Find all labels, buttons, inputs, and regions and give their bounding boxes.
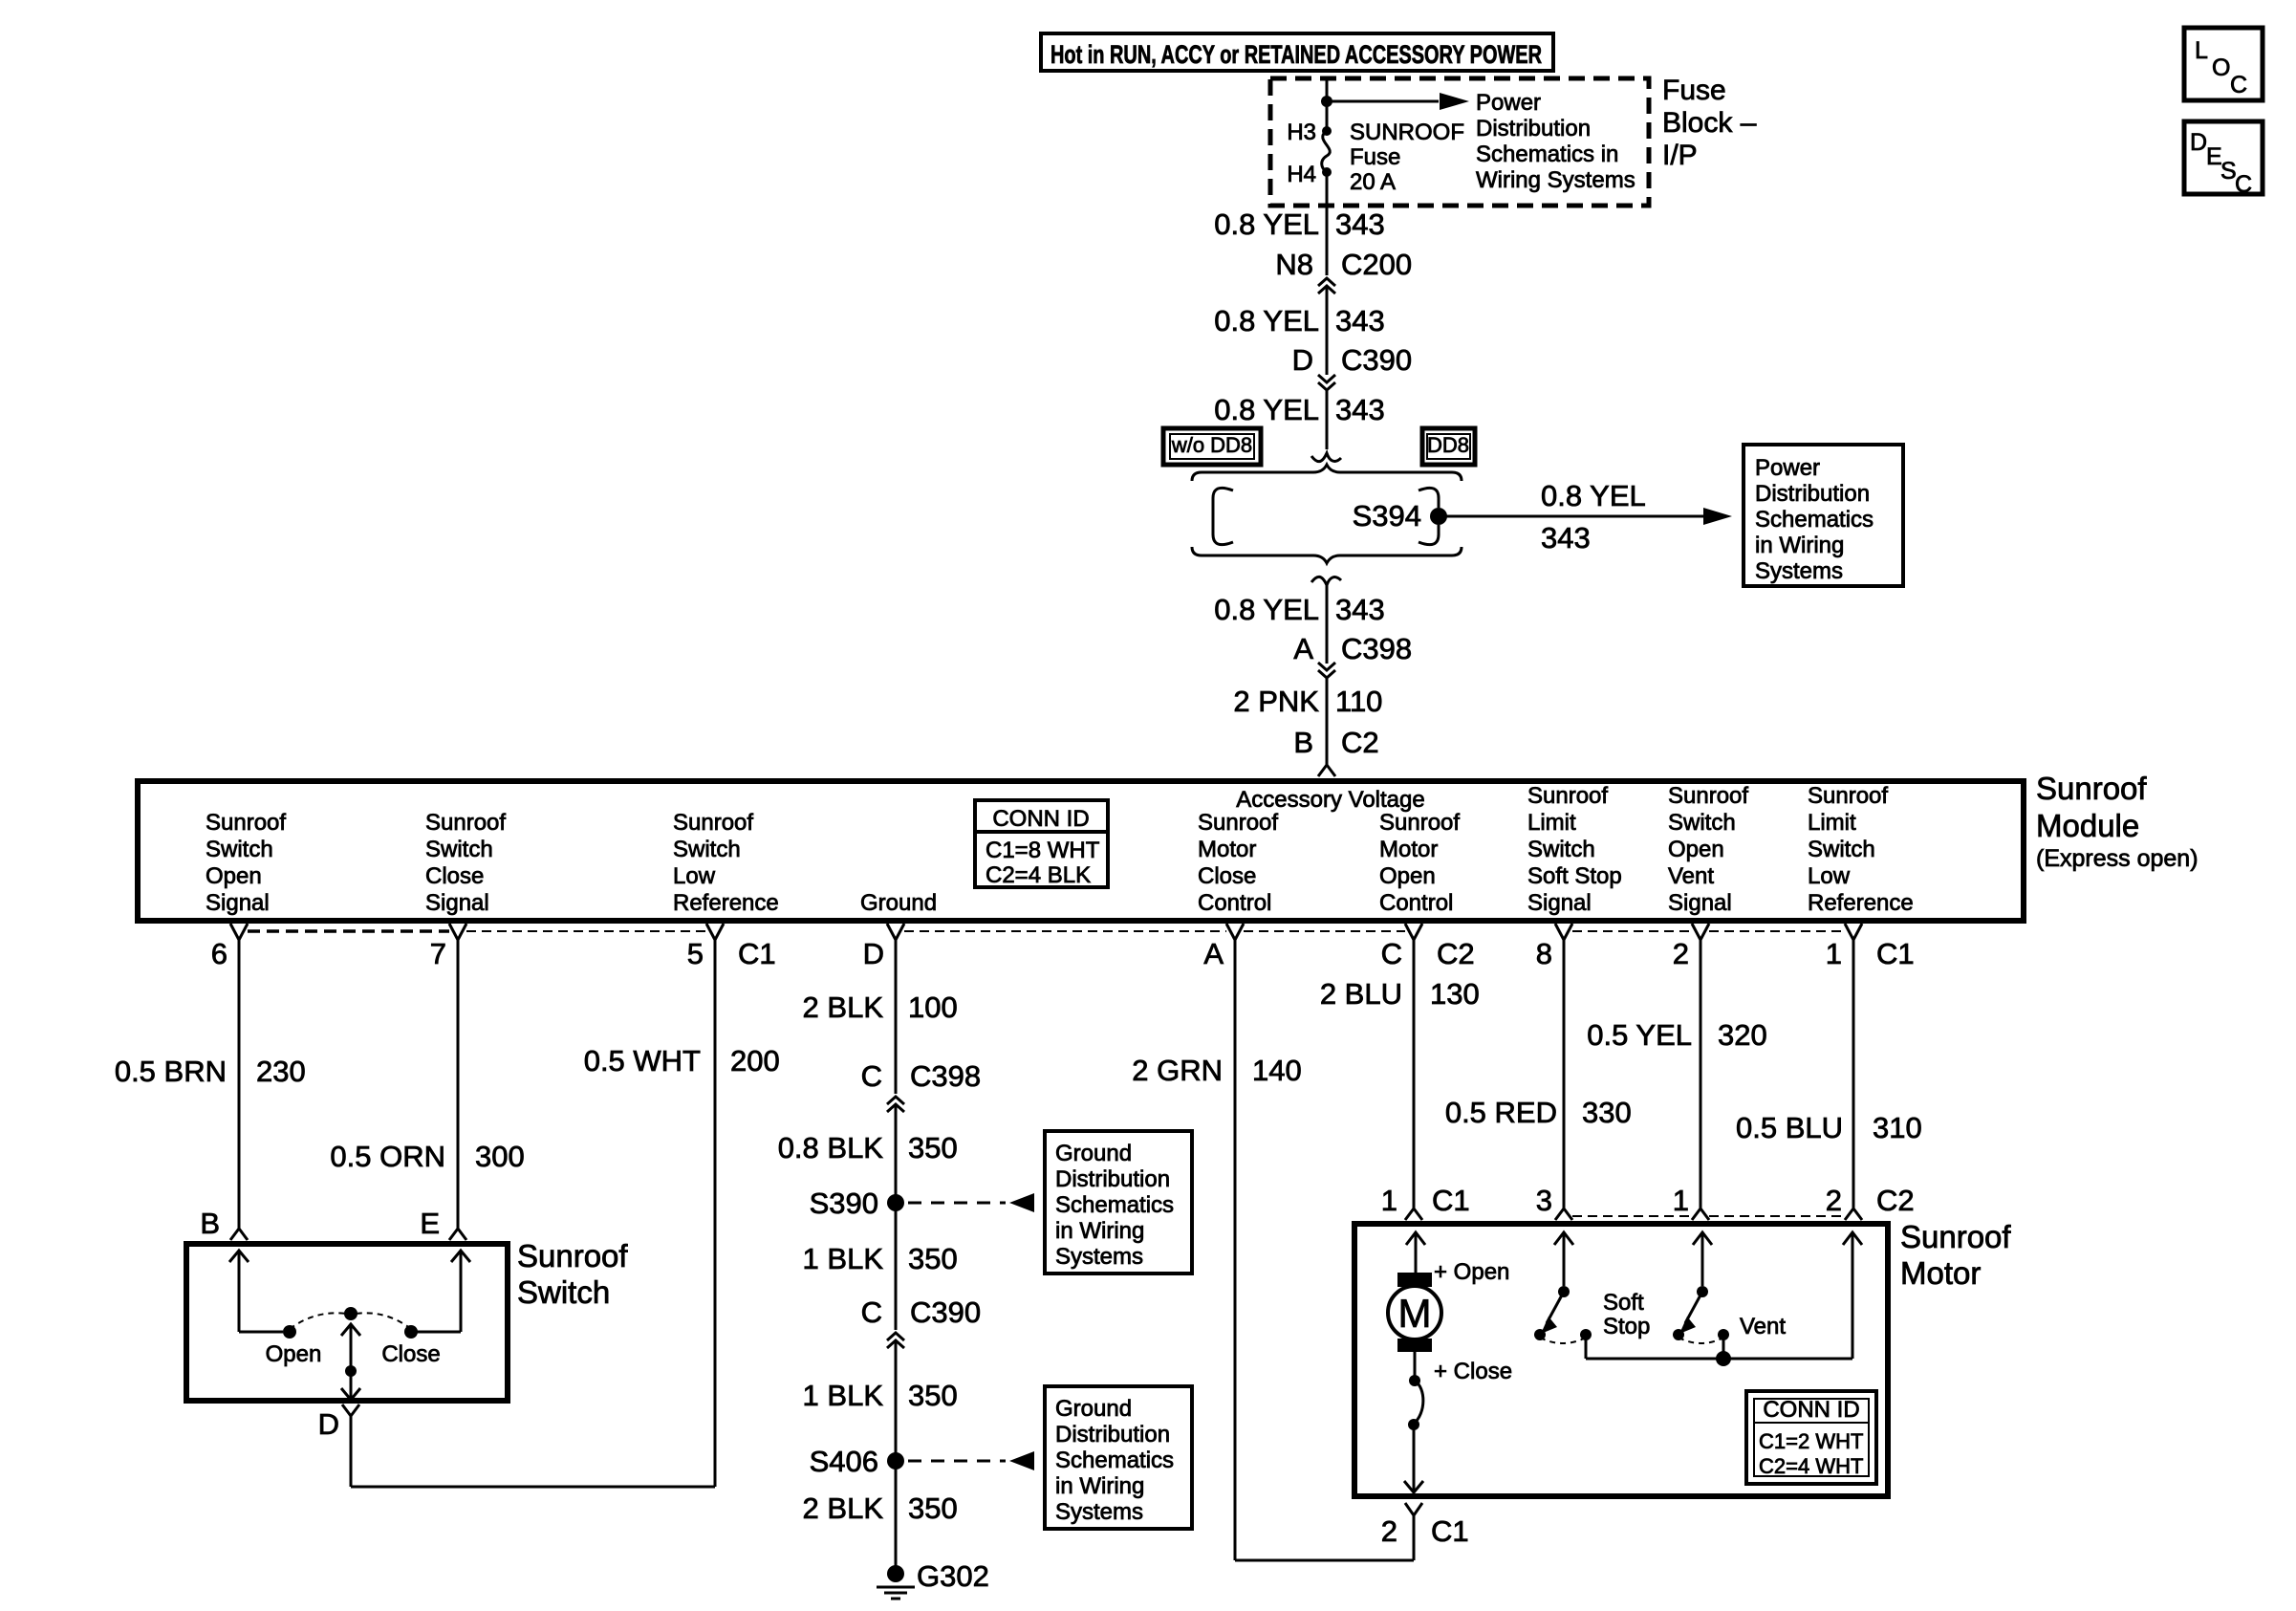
label: E (420, 1207, 440, 1240)
wire: C398 to C390 ground (895, 1104, 898, 1330)
svg-text:C1=2 WHT: C1=2 WHT (1759, 1429, 1863, 1453)
svg-text:330: 330 (1582, 1096, 1632, 1129)
wire: motor pin 2 C2 internal (1843, 1232, 1862, 1359)
svg-text:Distribution: Distribution (1476, 116, 1591, 142)
svg-text:S390: S390 (810, 1186, 878, 1220)
label: + Open (1434, 1259, 1509, 1285)
svg-text:Signal: Signal (425, 890, 489, 916)
switch common node (344, 1307, 357, 1320)
svg-text:in Wiring: in Wiring (1755, 533, 1844, 558)
wire: pin 8 to motor 3 (1563, 940, 1566, 1208)
switch rocker dashed arc left (290, 1313, 346, 1329)
svg-text:C1: C1 (1432, 1184, 1470, 1217)
motor M brush top (1397, 1273, 1432, 1287)
svg-text:1 BLK: 1 BLK (803, 1242, 884, 1275)
module pin 5 fork (706, 924, 724, 940)
svg-text:Limit: Limit (1808, 810, 1856, 836)
label: B (200, 1207, 220, 1240)
label: Open (266, 1341, 322, 1367)
connector dash 3-1 (motor) (1572, 1215, 1692, 1217)
svg-text:Reference: Reference (1808, 890, 1914, 916)
label: G302 (917, 1559, 989, 1593)
module label: Sunroof Switch Low Reference (673, 810, 779, 916)
label: Fuse Block - I/P (1662, 75, 1757, 171)
module CONN ID table (975, 800, 1108, 888)
label: C C398 (ground) (861, 1059, 982, 1093)
svg-text:343: 343 (1335, 304, 1385, 337)
svg-text:0.8 YEL: 0.8 YEL (1214, 304, 1319, 337)
svg-text:Control: Control (1198, 890, 1271, 916)
label: Sunroof Motor (1900, 1219, 2011, 1291)
svg-text:C: C (861, 1295, 882, 1329)
svg-text:C398: C398 (1341, 632, 1412, 665)
svg-text:8: 8 (1536, 937, 1552, 970)
svg-text:S394: S394 (1353, 499, 1421, 533)
label: 2 BLU 130 (1320, 977, 1480, 1011)
ground G302 symbol (877, 1565, 915, 1599)
motor arrow in 3 (1554, 1232, 1573, 1286)
svg-text:0.5 BLU: 0.5 BLU (1736, 1111, 1843, 1144)
svg-text:Sunroof: Sunroof (1808, 783, 1888, 809)
option box DD8 (1422, 428, 1475, 465)
svg-text:Motor: Motor (1379, 837, 1438, 862)
svg-text:CONN ID: CONN ID (992, 806, 1089, 832)
connector dash 6-7 (248, 929, 449, 933)
connector dash 2-1 (1709, 930, 1845, 932)
pin E fork into switch (449, 1229, 466, 1240)
svg-text:in Wiring: in Wiring (1055, 1473, 1144, 1499)
svg-text:Fuse: Fuse (1662, 75, 1726, 106)
wire: pin 7 to switch E (457, 940, 460, 1229)
fuse SUNROOF 20A element (1322, 126, 1332, 177)
svg-text:C1=8 WHT: C1=8 WHT (986, 838, 1100, 863)
svg-text:Signal: Signal (1668, 890, 1732, 916)
svg-text:Sunroof: Sunroof (673, 810, 753, 836)
svg-text:343: 343 (1335, 393, 1385, 426)
motor close contact chain (1404, 1352, 1423, 1492)
svg-text:Sunroof: Sunroof (1668, 783, 1748, 809)
svg-text:C2: C2 (1437, 937, 1475, 970)
switch rocker dashed arc right (356, 1313, 411, 1329)
svg-text:6: 6 (211, 937, 227, 970)
connector dash 1-2 (motor) (1709, 1215, 1845, 1217)
svg-text:Sunroof: Sunroof (1527, 783, 1608, 809)
switch common mid node (345, 1365, 357, 1377)
svg-text:2 GRN: 2 GRN (1132, 1054, 1223, 1087)
svg-text:2: 2 (1673, 937, 1689, 970)
svg-text:0.8 YEL: 0.8 YEL (1541, 479, 1646, 512)
svg-text:Hot in RUN, ACCY or RETAINED A: Hot in RUN, ACCY or RETAINED ACCESSORY P… (1051, 40, 1542, 69)
svg-text:343: 343 (1335, 207, 1385, 241)
dashed ref from S390 (908, 1202, 1006, 1205)
node: vent bus junction (1716, 1351, 1731, 1366)
DESC legend box (2184, 121, 2263, 198)
box: Ground Distribution Schematics in Wiring Systems (2) (1045, 1386, 1192, 1529)
svg-text:Systems: Systems (1055, 1499, 1143, 1525)
svg-text:343: 343 (1541, 521, 1591, 555)
switch common down arrow (341, 1388, 360, 1400)
module label: Sunroof Switch Open Vent Signal (1668, 783, 1748, 916)
svg-text:C2=4 BLK: C2=4 BLK (986, 862, 1091, 888)
module pin A fork (1226, 924, 1244, 940)
wire: pin C to motor 1 C1 (1413, 940, 1416, 1208)
splice S394 (1430, 508, 1447, 525)
label: N8 C200 (1275, 248, 1412, 281)
svg-text:A: A (1293, 632, 1313, 665)
module pin C fork (1405, 924, 1422, 940)
svg-text:Reference: Reference (673, 890, 779, 916)
pin B fork into switch (230, 1229, 248, 1240)
svg-text:C: C (2230, 72, 2247, 98)
svg-text:310: 310 (1873, 1111, 1922, 1144)
module label: Sunroof Motor Close Control (1198, 810, 1278, 916)
splice S406 (887, 1452, 904, 1469)
svg-text:Low: Low (673, 863, 716, 889)
svg-text:Schematics: Schematics (1055, 1448, 1174, 1473)
module pin 6 fork (230, 924, 248, 940)
motor pin fork x=1636 (1555, 1208, 1572, 1220)
fuse block I/P dashed outline (1270, 78, 1649, 206)
svg-text:Sunroof: Sunroof (1379, 810, 1460, 836)
svg-text:2: 2 (1381, 1514, 1397, 1548)
module pin D fork (887, 924, 904, 940)
wire: switch D to low reference (351, 1416, 715, 1487)
svg-text:343: 343 (1335, 593, 1385, 626)
svg-text:Ground: Ground (860, 890, 937, 916)
svg-text:C1: C1 (1876, 937, 1915, 970)
wire: branch to power distribution (1327, 100, 1439, 103)
power feed label box: Hot in RUN ACCY or RETAINED ACCESSORY POWER (1041, 33, 1553, 71)
svg-text:Module: Module (2036, 808, 2139, 843)
svg-text:Open: Open (1668, 837, 1724, 862)
svg-text:C200: C200 (1341, 248, 1412, 281)
svg-text:B: B (200, 1207, 220, 1240)
arrow to Power Distribution (1440, 93, 1469, 110)
label: + Close (1434, 1359, 1512, 1384)
svg-text:B: B (1293, 726, 1313, 759)
svg-text:Control: Control (1379, 890, 1453, 916)
label: 0.5 BLU 310 (1736, 1111, 1922, 1144)
connector dash 8-2 (1572, 930, 1692, 932)
brace top (option group) (1192, 465, 1462, 481)
svg-text:Switch: Switch (1808, 837, 1875, 862)
svg-text:1: 1 (1673, 1184, 1689, 1217)
svg-text:C: C (1381, 937, 1402, 970)
wire: pin 6 to switch B (238, 940, 241, 1229)
label: Soft Stop (1603, 1290, 1650, 1339)
wire: S394 branch right (1439, 515, 1707, 518)
svg-text:Distribution: Distribution (1055, 1422, 1170, 1448)
svg-text:5: 5 (687, 937, 704, 970)
brace bottom (option group) (1192, 547, 1462, 563)
sunroof switch outline (186, 1244, 508, 1401)
label: S390 (810, 1186, 878, 1220)
svg-text:Vent: Vent (1668, 863, 1714, 889)
sunroof motor outline (1354, 1224, 1888, 1496)
svg-text:Sunroof: Sunroof (517, 1238, 628, 1274)
svg-text:Schematics: Schematics (1055, 1192, 1174, 1218)
motor M circle (1388, 1286, 1441, 1339)
wire: C398 to module pin B (1326, 678, 1329, 765)
pin D fork out of switch (342, 1404, 359, 1416)
svg-text:Open: Open (266, 1341, 322, 1367)
svg-text:0.5 WHT: 0.5 WHT (584, 1044, 701, 1078)
svg-text:N8: N8 (1275, 248, 1313, 281)
motor arrow in 1 C1 (1406, 1232, 1425, 1273)
wire: C390 to ground G302 (895, 1340, 898, 1566)
svg-text:Soft Stop: Soft Stop (1527, 863, 1622, 889)
svg-text:100: 100 (908, 991, 958, 1024)
module pin 8 fork (1555, 924, 1572, 940)
svg-text:D: D (863, 937, 884, 970)
svg-text:in Wiring: in Wiring (1055, 1218, 1144, 1244)
module label: Sunroof Limit Switch Low Reference (1808, 783, 1914, 916)
svg-text:Sunroof: Sunroof (1900, 1219, 2011, 1254)
svg-text:H3: H3 (1287, 120, 1316, 145)
splice S390 (887, 1194, 904, 1211)
splice option bracket left (1213, 488, 1233, 544)
LOC legend box (2184, 28, 2263, 100)
svg-text:Switch: Switch (206, 837, 273, 862)
svg-text:C390: C390 (910, 1295, 981, 1329)
label: S406 (810, 1445, 878, 1478)
motor arrow in 1 C2 (1693, 1232, 1712, 1286)
svg-text:Power: Power (1755, 455, 1820, 481)
label: Close (381, 1341, 440, 1367)
label: 0.8 YEL over branch (1541, 479, 1646, 512)
arrow to Power Distribution (right) (1703, 508, 1732, 525)
svg-text:DD8: DD8 (1427, 433, 1469, 457)
svg-text:0.5 BRN: 0.5 BRN (115, 1055, 227, 1088)
wire: pin 1 to motor 2 C2 (1852, 940, 1855, 1208)
svg-text:Sunroof: Sunroof (206, 810, 286, 836)
motor pin labels (1381, 1184, 1915, 1217)
label: 0.8 YEL 343 (4) (1214, 593, 1384, 626)
svg-text:Sunroof: Sunroof (2036, 771, 2147, 806)
wire: feed into fuse block (1326, 78, 1329, 131)
wire: option split to C398 (1326, 583, 1329, 664)
svg-text:Power: Power (1476, 90, 1541, 116)
module pin 1 fork (1845, 924, 1862, 940)
svg-text:140: 140 (1252, 1054, 1302, 1087)
module label: Sunroof Limit Switch Soft Stop Signal (1527, 783, 1622, 916)
label: 2 C1 (motor bottom) (1381, 1514, 1469, 1548)
svg-text:Close: Close (1198, 863, 1256, 889)
pin H4 label (1287, 162, 1316, 187)
svg-text:Fuse: Fuse (1350, 144, 1400, 170)
connector dash 7-5 (466, 930, 706, 932)
svg-text:C2: C2 (1876, 1184, 1915, 1217)
pin B fork into module (1318, 765, 1335, 776)
wire: C390 down to option split (1326, 390, 1329, 449)
svg-text:Switch: Switch (673, 837, 741, 862)
connector dash D-A (904, 930, 1226, 932)
svg-text:w/o DD8: w/o DD8 (1171, 433, 1252, 457)
svg-text:Systems: Systems (1055, 1244, 1143, 1270)
label: Sunroof Switch (517, 1238, 628, 1310)
switch open contact arm (229, 1251, 296, 1339)
svg-text:CONN ID: CONN ID (1763, 1397, 1859, 1423)
svg-text:C2=4 WHT: C2=4 WHT (1759, 1454, 1863, 1478)
label: 0.5 WHT 200 (584, 1044, 780, 1078)
module label: Accessory Voltage (1236, 787, 1424, 813)
svg-text:350: 350 (908, 1242, 958, 1275)
motor M brush bottom (1397, 1339, 1432, 1352)
dashed ref from S406 (908, 1460, 1006, 1463)
svg-text:Motor: Motor (1900, 1255, 1981, 1291)
svg-text:350: 350 (908, 1131, 958, 1165)
option box w/o DD8 (1163, 428, 1261, 465)
svg-text:0.5 ORN: 0.5 ORN (330, 1140, 445, 1173)
svg-text:Wiring Systems: Wiring Systems (1476, 167, 1635, 193)
svg-text:0.8 YEL: 0.8 YEL (1214, 207, 1319, 241)
label: A C398 (1293, 632, 1412, 665)
connector dash A-C (1244, 930, 1405, 932)
vent switch (1673, 1286, 1729, 1359)
svg-text:Block –: Block – (1662, 107, 1757, 139)
svg-text:350: 350 (908, 1379, 958, 1412)
svg-text:1 BLK: 1 BLK (803, 1379, 884, 1412)
sunroof module outline (138, 781, 2024, 921)
motor pin fork x=1779 (1692, 1208, 1709, 1220)
svg-text:Schematics: Schematics (1755, 507, 1874, 533)
label: Power Distribution Schematics in Wiring Systems (1476, 90, 1635, 193)
svg-text:2 BLK: 2 BLK (803, 991, 884, 1024)
label: 2 PNK 110 (1233, 685, 1382, 718)
svg-text:Limit: Limit (1527, 810, 1576, 836)
svg-text:H4: H4 (1287, 162, 1316, 187)
module label: Ground (860, 890, 937, 916)
svg-text:+ Close: + Close (1434, 1359, 1512, 1384)
svg-text:350: 350 (908, 1491, 958, 1525)
wire squiggle above brace (1311, 453, 1341, 462)
svg-text:Ground: Ground (1055, 1396, 1132, 1422)
svg-text:2 PNK: 2 PNK (1233, 685, 1319, 718)
svg-text:Schematics in: Schematics in (1476, 142, 1618, 167)
node: fuse block feed junction (1321, 96, 1332, 107)
label: C C390 (ground) (861, 1295, 982, 1329)
svg-text:2: 2 (1826, 1184, 1842, 1217)
svg-text:0.8 YEL: 0.8 YEL (1214, 593, 1319, 626)
connector C398 symbol (ground) (887, 1097, 904, 1112)
label: 0.5 BRN 230 (115, 1055, 306, 1088)
label: 343 under branch (1541, 521, 1591, 555)
wire: pin 5 low reference (714, 940, 717, 1487)
label: 0.8 YEL 343 (3) (1214, 393, 1384, 426)
motor internal bus (1586, 1358, 1852, 1361)
connector C390 symbol (1318, 375, 1335, 390)
svg-text:Open: Open (1379, 863, 1436, 889)
svg-text:0.5 YEL: 0.5 YEL (1587, 1018, 1692, 1052)
wire: fuse H4 down to C200 (1326, 172, 1329, 275)
wire: pin A accessory voltage loop (1235, 940, 1414, 1560)
svg-text:A: A (1203, 937, 1224, 970)
svg-text:Distribution: Distribution (1755, 481, 1870, 507)
svg-text:S406: S406 (810, 1445, 878, 1478)
svg-text:Stop: Stop (1603, 1314, 1650, 1339)
label: 2 BLK 350 (803, 1491, 958, 1525)
svg-text:Sunroof: Sunroof (425, 810, 506, 836)
module label: Sunroof Motor Open Control (1379, 810, 1460, 916)
svg-text:SUNROOF: SUNROOF (1350, 120, 1464, 145)
label: 0.5 ORN 300 (330, 1140, 524, 1173)
motor pin fork x=1939 (1845, 1208, 1862, 1220)
svg-text:Vent: Vent (1740, 1314, 1786, 1339)
svg-text:C1: C1 (1431, 1514, 1469, 1548)
svg-text:Ground: Ground (1055, 1141, 1132, 1166)
svg-text:Low: Low (1808, 863, 1851, 889)
svg-text:7: 7 (430, 937, 446, 970)
svg-text:110: 110 (1335, 685, 1382, 718)
module label: Sunroof Switch Open Signal (206, 810, 286, 916)
svg-text:1: 1 (1381, 1184, 1397, 1217)
label: 0.5 RED 330 (1445, 1096, 1632, 1129)
label: 2 GRN 140 (1132, 1054, 1301, 1087)
wire: pin D ground to C398 (895, 940, 898, 1094)
svg-text:2 BLU: 2 BLU (1320, 977, 1402, 1011)
label: 0.8 BLK 350 (778, 1131, 958, 1165)
motor CONN ID table (1746, 1391, 1876, 1484)
svg-text:Open: Open (206, 863, 262, 889)
svg-text:C390: C390 (1341, 343, 1412, 377)
pin H3 label (1287, 120, 1316, 145)
svg-text:Switch: Switch (1668, 810, 1736, 836)
pin 2 C1 fork out of motor (1405, 1503, 1422, 1515)
connector C390 symbol (ground) (887, 1333, 904, 1348)
label: Vent (1740, 1314, 1786, 1339)
svg-text:Switch: Switch (425, 837, 493, 862)
svg-text:300: 300 (475, 1140, 525, 1173)
svg-text:2 BLK: 2 BLK (803, 1491, 884, 1525)
svg-text:E: E (420, 1207, 440, 1240)
splice option bracket right (1419, 488, 1439, 544)
label: SUNROOF Fuse 20 A (1350, 120, 1464, 195)
soft stop switch (1534, 1286, 1592, 1359)
svg-text:130: 130 (1430, 977, 1480, 1011)
svg-text:O: O (2212, 54, 2230, 81)
module label: Sunroof Switch Close Signal (425, 810, 506, 916)
box: Power Distribution Schematics in Wiring Systems (right) (1744, 445, 1903, 586)
svg-text:I/P: I/P (1662, 140, 1698, 171)
svg-text:Switch: Switch (517, 1274, 610, 1310)
svg-text:3: 3 (1536, 1184, 1552, 1217)
label: 2 BLK 100 (803, 991, 958, 1024)
svg-text:C2: C2 (1341, 726, 1379, 759)
arrow to ground distribution 2 (1009, 1451, 1034, 1470)
label: 0.8 YEL 343 (1) (1214, 207, 1384, 241)
label: Sunroof Module (Express open) (2036, 771, 2199, 872)
label: B C2 (1293, 726, 1378, 759)
module pin 7 fork (449, 924, 466, 940)
switch close contact arm (404, 1251, 470, 1339)
label: 1 BLK 350 (a) (803, 1242, 958, 1275)
svg-text:Close: Close (381, 1341, 440, 1367)
svg-text:Close: Close (425, 863, 484, 889)
label: D C390 (1292, 343, 1413, 377)
label: 0.8 YEL 343 (2) (1214, 304, 1384, 337)
svg-text:G302: G302 (917, 1559, 989, 1593)
svg-text:Motor: Motor (1198, 837, 1256, 862)
svg-text:320: 320 (1718, 1018, 1767, 1052)
svg-text:Accessory Voltage: Accessory Voltage (1236, 787, 1424, 813)
svg-text:C: C (861, 1059, 882, 1093)
svg-text:Distribution: Distribution (1055, 1166, 1170, 1192)
label: 0.5 YEL 320 (1587, 1018, 1766, 1052)
module pin 2 fork (1692, 924, 1709, 940)
svg-text:0.8 YEL: 0.8 YEL (1214, 393, 1319, 426)
label: S394 (1353, 499, 1421, 533)
svg-text:Systems: Systems (1755, 558, 1843, 584)
